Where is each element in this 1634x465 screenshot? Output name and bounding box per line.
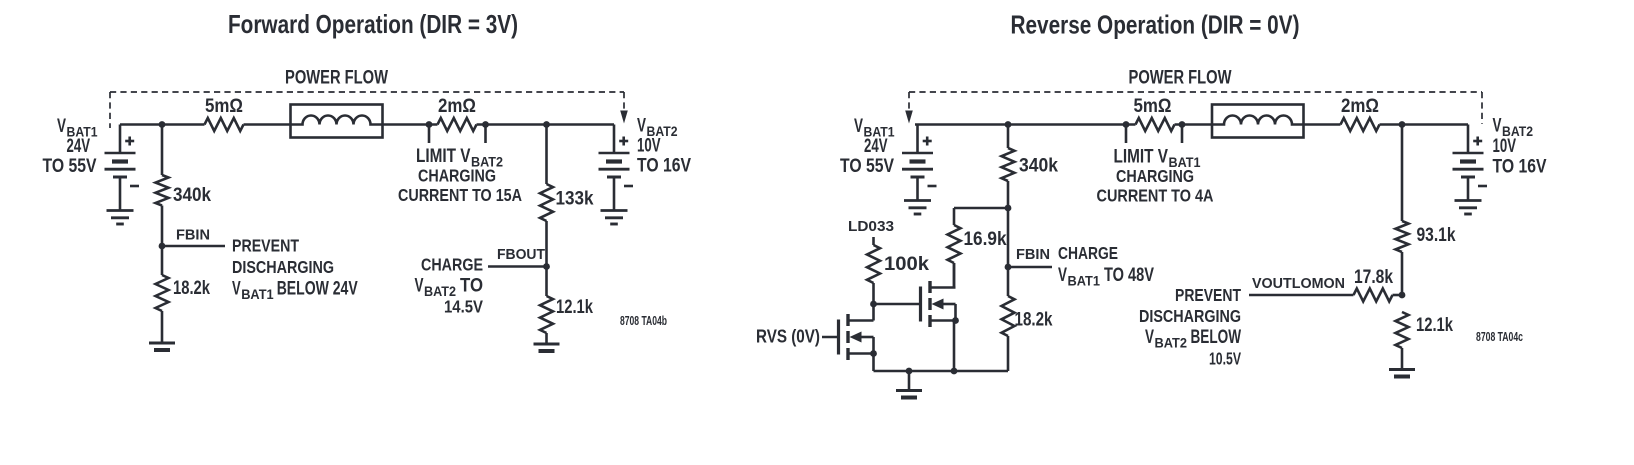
- svg-text:LIMIT V: LIMIT V: [1114, 147, 1169, 168]
- svg-text:V: V: [1145, 327, 1154, 348]
- svg-text:BAT2: BAT2: [1155, 336, 1188, 351]
- wire: 16.9k to M2 drain (right): [953, 263, 956, 288]
- svg-text:PREVENT: PREVENT: [1175, 285, 1241, 305]
- node: 2m&#937; sense - (left): [482, 121, 489, 128]
- svg-text:18.2k: 18.2k: [1015, 310, 1053, 331]
- ground (FBIN divider, left): [149, 343, 175, 350]
- M2 body-source junction: [952, 317, 959, 324]
- power-flow arrowhead into VBAT1: [905, 111, 913, 124]
- battery VBAT1 (right): [902, 125, 937, 200]
- annotation: CHARGE VBAT1 TO 48V: [1058, 243, 1154, 289]
- ground (VBAT1 (right)): [904, 201, 931, 215]
- svg-text:TO: TO: [460, 276, 483, 297]
- wire: FBOUT stub (left): [488, 265, 547, 268]
- node FBIN (left): [159, 243, 166, 250]
- svg-text:FBIN: FBIN: [176, 228, 210, 244]
- svg-text:24V: 24V: [864, 136, 888, 157]
- svg-text:LIMIT V: LIMIT V: [416, 146, 471, 167]
- ground (VOUT divider, right): [1389, 370, 1415, 377]
- svg-text:24V: 24V: [67, 136, 91, 157]
- resistor 5m&#937; (right): [1136, 118, 1175, 131]
- annotation: LIMIT VBAT2 CHARGING CURRENT TO 15A: [398, 146, 522, 205]
- svg-text:133k: 133k: [556, 189, 594, 210]
- wire: 18.2k down to rail (right): [1007, 336, 1010, 371]
- svg-text:14.5V: 14.5V: [444, 297, 483, 317]
- resistor 16.9k (right): [948, 225, 961, 263]
- node: 5m&#937; sense + (right): [1123, 121, 1130, 128]
- resistor 12.1k (left): [540, 296, 553, 333]
- wire: FBIN stub (right): [1008, 266, 1052, 269]
- svg-text:CURRENT TO 15A: CURRENT TO 15A: [398, 185, 522, 205]
- wire: FBOUT to 12.1k (left): [545, 267, 548, 297]
- resistor 133k (left): [540, 184, 553, 221]
- inductor (left): [291, 105, 383, 138]
- svg-text:V: V: [57, 116, 66, 137]
- svg-text:BELOW: BELOW: [1191, 327, 1242, 348]
- resistor 93.1k: [1396, 221, 1409, 252]
- wire: 18.2k to ground (left): [161, 311, 164, 342]
- wire: FBIN to 18.2k (left): [161, 246, 164, 275]
- node FBIN (right): [1005, 264, 1012, 271]
- svg-text:DISCHARGING: DISCHARGING: [232, 257, 334, 277]
- resistor 18.2k (left): [156, 275, 169, 311]
- annotation: LIMIT VBAT1 CHARGING CURRENT TO 4A: [1097, 147, 1214, 206]
- wire: tap node down to FBIN (right): [1007, 208, 1010, 267]
- wire: main top rail (right schematic): [915, 123, 1468, 126]
- svg-text:12.1k: 12.1k: [556, 297, 593, 318]
- wire: M1 drain up to gate node: [872, 304, 875, 321]
- resistor 17.8k: [1354, 289, 1393, 302]
- svg-text:CURRENT TO 4A: CURRENT TO 4A: [1097, 186, 1214, 206]
- label VBAT2 10V TO 16V (right): [1493, 116, 1547, 178]
- node FBOUT (left): [543, 263, 550, 270]
- svg-text:Forward Operation (DIR = 3V): Forward Operation (DIR = 3V): [228, 9, 518, 39]
- svg-text:PREVENT: PREVENT: [232, 236, 299, 256]
- wire: RVS input to M1 gate: [822, 336, 839, 339]
- svg-text:DISCHARGING: DISCHARGING: [1139, 306, 1241, 326]
- wire: VOUTLOMON lead: [1249, 294, 1354, 297]
- svg-text:2mΩ: 2mΩ: [1341, 96, 1379, 117]
- ground (VBAT1 (left)): [107, 211, 134, 225]
- svg-text:CHARGE: CHARGE: [1058, 243, 1118, 263]
- svg-text:V: V: [415, 276, 424, 297]
- svg-text:BAT1: BAT1: [1068, 274, 1101, 289]
- wire: 12.1k to ground (left): [545, 333, 548, 343]
- svg-text:TO 16V: TO 16V: [1493, 157, 1547, 178]
- wire: 340k to FBIN node (left): [161, 206, 164, 247]
- svg-text:CHARGING: CHARGING: [1116, 166, 1194, 186]
- resistor 2m&#937; (right): [1341, 118, 1380, 131]
- svg-text:340k: 340k: [173, 185, 211, 206]
- svg-text:FBOUT: FBOUT: [497, 247, 545, 263]
- resistor 340k (left): [156, 175, 169, 206]
- node: rail / ground junction: [906, 368, 913, 375]
- node: M1 drain / M2 gate junction: [870, 301, 877, 308]
- svg-text:5mΩ: 5mΩ: [205, 96, 243, 117]
- wire: bottom rail (right schematic): [874, 370, 1009, 373]
- sense stub right (2m&#937;): [484, 125, 487, 144]
- svg-text:8708 TA04c: 8708 TA04c: [1476, 330, 1523, 344]
- svg-text:340k: 340k: [1019, 156, 1058, 177]
- power-flow dashed boundary (right schematic): [909, 92, 1482, 124]
- resistor 340k (right): [1002, 148, 1015, 181]
- node: 2m&#937; sense + (left): [426, 121, 433, 128]
- wire: 100k to gate node: [872, 283, 875, 304]
- transistor M1 (NMOS): [839, 314, 874, 360]
- svg-text:8708 TA04b: 8708 TA04b: [620, 314, 667, 328]
- annotation: CHARGE VBAT2 TO 14.5V: [415, 255, 484, 317]
- inductor (right): [1212, 105, 1304, 138]
- svg-text:2mΩ: 2mΩ: [438, 96, 476, 117]
- svg-text:TO 55V: TO 55V: [840, 156, 894, 177]
- svg-text:16.9k: 16.9k: [964, 229, 1007, 250]
- wire: main top rail (left schematic): [120, 123, 614, 126]
- ground (VBAT2 (left)): [601, 211, 628, 225]
- svg-text:BAT1: BAT1: [241, 287, 274, 302]
- node: 5m&#937; sense - (right): [1179, 121, 1186, 128]
- wire: 340k to 16.9k tap node (right): [1007, 181, 1010, 208]
- wire: tap node to 16.9k top (right): [954, 208, 1008, 225]
- node: rail / M2 source junction: [951, 368, 958, 375]
- svg-text:TO 16V: TO 16V: [637, 156, 691, 177]
- node VOUTLOMON junction: [1399, 292, 1406, 299]
- battery VBAT2 (right): [1453, 125, 1488, 200]
- svg-text:10V: 10V: [1493, 136, 1517, 157]
- wire: 93.1k from top rail (right): [1401, 125, 1404, 222]
- battery VBAT2 (left): [599, 125, 634, 210]
- wire: 133k to FBOUT node (left): [545, 221, 548, 267]
- svg-text:TO 48V: TO 48V: [1104, 265, 1154, 286]
- wire: VBAT1 node down to 340k (right): [1007, 125, 1010, 149]
- sense stub right (5m&#937;): [1181, 125, 1184, 144]
- annotation: PREVENT DISCHARGING VBAT2 BELOW 10.5V: [1139, 285, 1241, 369]
- svg-text:V: V: [232, 278, 241, 299]
- wire: M2 drain up to 16.9k: [953, 263, 956, 288]
- battery VBAT1 (left): [105, 125, 140, 210]
- svg-text:93.1k: 93.1k: [1417, 225, 1456, 246]
- svg-text:FBIN: FBIN: [1016, 247, 1050, 263]
- resistor 5m&#937; (left): [205, 118, 244, 131]
- svg-text:POWER FLOW: POWER FLOW: [1129, 68, 1232, 89]
- node: junction to 93.1k (right): [1399, 121, 1406, 128]
- node: VBAT1 junction to 340k (right): [1005, 121, 1012, 128]
- ground (VBAT2 (right)): [1455, 201, 1482, 215]
- svg-text:LD033: LD033: [848, 218, 894, 235]
- svg-text:12.1k: 12.1k: [1416, 315, 1453, 336]
- wire: 12.1k to ground (right): [1401, 348, 1404, 369]
- label VBAT1 24V TO 55V (left): [43, 116, 98, 177]
- svg-text:V: V: [854, 116, 863, 137]
- svg-text:V: V: [1493, 116, 1502, 137]
- svg-text:100k: 100k: [884, 254, 929, 275]
- sense stub left (5m&#937;): [1125, 125, 1128, 144]
- wire: 93.1k to VOUTLOMON node: [1401, 252, 1404, 295]
- resistor 2m&#937; (left): [438, 118, 477, 131]
- node: junction to 133k (left): [543, 121, 550, 128]
- ground (FBOUT divider, left): [534, 344, 560, 351]
- svg-text:POWER FLOW: POWER FLOW: [285, 68, 388, 89]
- wire: gate node to M2 gate: [874, 303, 921, 306]
- svg-text:17.8k: 17.8k: [1354, 267, 1393, 288]
- label VBAT1 24V TO 55V (right): [840, 116, 895, 177]
- wire: VBAT1 node down to 340k (left): [161, 125, 164, 176]
- power-flow dashed boundary (left schematic): [110, 92, 624, 128]
- resistor 100k: [867, 245, 880, 283]
- svg-text:18.2k: 18.2k: [173, 278, 210, 299]
- M1 body-source junction: [870, 350, 877, 357]
- wire: M2 source down to rail: [953, 321, 956, 372]
- resistor 12.1k (right): [1396, 312, 1409, 348]
- svg-text:V: V: [1058, 265, 1067, 286]
- svg-text:V: V: [637, 116, 646, 137]
- ground (MOSFET rail): [896, 391, 922, 398]
- svg-text:10V: 10V: [637, 136, 661, 157]
- wire: M1 source down to rail: [872, 354, 875, 372]
- transistor M2 (NMOS): [921, 281, 956, 327]
- annotation: PREVENT DISCHARGING VBAT1 BELOW 24V: [232, 236, 358, 302]
- wire: top rail down to 133k (left): [545, 125, 548, 185]
- node: 340k/16.9k junction (right): [1005, 205, 1012, 212]
- label VBAT2 10V TO 16V (left): [637, 116, 691, 177]
- svg-text:CHARGE: CHARGE: [421, 255, 483, 275]
- svg-text:TO 55V: TO 55V: [43, 156, 97, 177]
- wire: FBIN to 18.2k (right): [1007, 267, 1010, 296]
- svg-text:5mΩ: 5mΩ: [1134, 96, 1172, 117]
- svg-text:VOUTLOMON: VOUTLOMON: [1252, 276, 1345, 292]
- svg-text:Reverse Operation (DIR = 0V): Reverse Operation (DIR = 0V): [1011, 10, 1300, 40]
- svg-text:RVS (0V): RVS (0V): [756, 327, 820, 347]
- sense stub left (2m&#937;): [428, 125, 431, 144]
- svg-text:CHARGING: CHARGING: [418, 166, 496, 186]
- svg-text:10.5V: 10.5V: [1209, 349, 1241, 369]
- wire: rail to ground: [908, 371, 911, 390]
- svg-text:BELOW 24V: BELOW 24V: [277, 278, 358, 299]
- wire: FBIN stub (left): [162, 245, 225, 248]
- node: VBAT1 junction to 340k (left): [159, 121, 166, 128]
- wire: 17.8k to node: [1393, 294, 1403, 297]
- wire: LD033 to 100k: [872, 237, 875, 245]
- resistor 18.2k (right): [1002, 296, 1015, 336]
- power-flow arrowhead into VBAT2: [620, 111, 628, 124]
